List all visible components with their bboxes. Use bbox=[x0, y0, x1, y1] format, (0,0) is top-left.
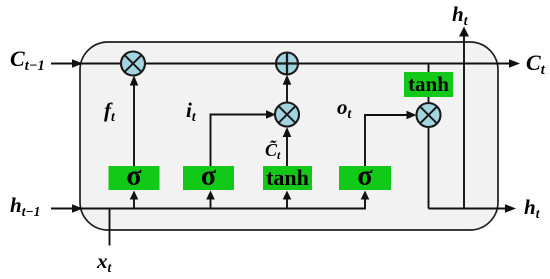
gate box sigma2 bbox=[183, 166, 234, 190]
wire h output bottom line bbox=[429, 208, 507, 210]
wire i path (sigma2 up then right to multiply node) bbox=[211, 115, 269, 167]
gate box tanh lower bbox=[263, 166, 312, 190]
gate box sigma4 bbox=[339, 166, 391, 190]
arrowhead f into X1 bbox=[130, 76, 139, 86]
arrowhead Ctilde into X2 bbox=[283, 127, 292, 137]
wire ht-1 entry bbox=[51, 208, 72, 210]
arrow stub into tanh gate bbox=[286, 198, 288, 209]
svg-text:σ: σ bbox=[201, 161, 217, 192]
arrowhead ht-1 entry bbox=[72, 204, 83, 213]
wire h branch up to top ht bbox=[463, 35, 465, 209]
arrowhead i into X2 bbox=[266, 110, 276, 119]
arrowhead into plus node bbox=[283, 75, 292, 85]
arrowhead o into X3 bbox=[407, 111, 417, 120]
wire X3 down to h output line bbox=[428, 127, 430, 209]
arrowhead into sigma4 bbox=[361, 191, 370, 200]
LSTM cell body bbox=[80, 42, 498, 230]
arrow stub into sigma1 bbox=[133, 198, 135, 209]
wire Ctilde path (tanh box up to multiply node) bbox=[286, 135, 288, 166]
wire C line (Ct-1 to Ct) bbox=[51, 63, 510, 65]
wire inner recurrent line feeding gates bbox=[80, 198, 365, 209]
wire f path (sigma1 up to multiply node) bbox=[133, 83, 135, 166]
node multiply X1 (forget gate) bbox=[121, 52, 145, 76]
wire C branch down through tanh to X3 bbox=[428, 64, 430, 104]
gate box tanh upper right bbox=[404, 72, 453, 97]
svg-text:tanh: tanh bbox=[408, 72, 449, 96]
arrowhead Ct exit bbox=[509, 59, 520, 68]
gate box sigma1 bbox=[109, 166, 160, 190]
svg-text:σ: σ bbox=[357, 161, 373, 192]
node multiply X3 (output gate) bbox=[417, 103, 441, 127]
svg-text:tanh: tanh bbox=[266, 165, 309, 190]
arrowhead ht right exit bbox=[505, 204, 516, 213]
arrowhead C entry bbox=[72, 59, 83, 68]
wire o path (sigma4 up then right to multiply node) bbox=[365, 115, 409, 166]
svg-text:σ: σ bbox=[126, 161, 142, 192]
wire xt input bbox=[109, 209, 111, 246]
arrow stub into sigma2 bbox=[210, 198, 212, 209]
arrowhead ht top bbox=[459, 27, 469, 37]
wire X2 up to plus node bbox=[286, 83, 288, 103]
node plus (cell state add) bbox=[276, 53, 298, 75]
node multiply X2 (input gate) bbox=[275, 103, 299, 127]
